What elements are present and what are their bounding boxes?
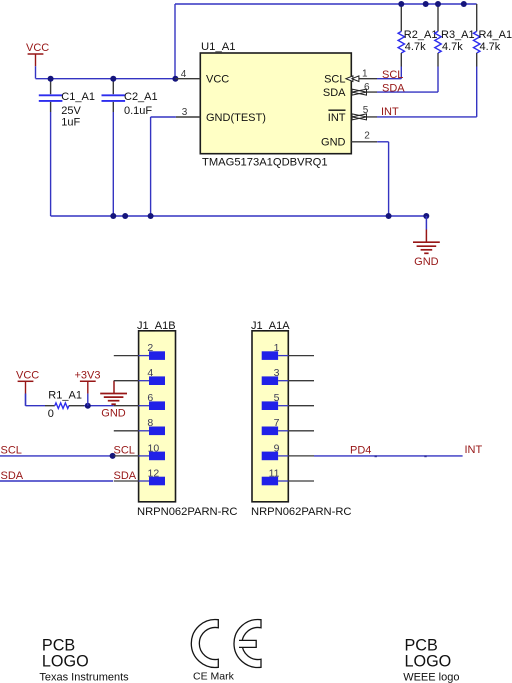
svg-text:C2_A1: C2_A1 <box>124 91 158 103</box>
svg-text:12: 12 <box>148 467 160 479</box>
svg-text:NRPN062PARN-RC: NRPN062PARN-RC <box>137 506 238 518</box>
svg-text:3: 3 <box>182 107 188 118</box>
svg-text:4.7k: 4.7k <box>442 41 463 53</box>
svg-text:R4_A1: R4_A1 <box>479 29 512 41</box>
svg-text:Texas Instruments: Texas Instruments <box>39 671 129 683</box>
svg-text:4: 4 <box>147 367 153 379</box>
svg-text:11: 11 <box>269 467 280 479</box>
svg-text:6: 6 <box>147 392 153 404</box>
svg-text:SCL: SCL <box>1 445 22 457</box>
svg-text:SDA: SDA <box>1 470 24 482</box>
svg-text:J1_A1B: J1_A1B <box>137 320 176 332</box>
svg-text:WEEE logo: WEEE logo <box>403 671 459 683</box>
svg-text:8: 8 <box>147 417 153 429</box>
svg-text:SCL: SCL <box>114 445 135 457</box>
svg-text:5: 5 <box>274 392 280 404</box>
svg-text:10: 10 <box>148 442 160 454</box>
svg-text:R1_A1: R1_A1 <box>48 389 82 401</box>
svg-text:2: 2 <box>147 342 153 354</box>
svg-text:LOGO: LOGO <box>405 652 452 670</box>
svg-text:INT: INT <box>465 444 483 456</box>
svg-text:4: 4 <box>181 69 187 80</box>
svg-text:R2_A1: R2_A1 <box>404 29 438 41</box>
svg-text:U1_A1: U1_A1 <box>201 41 236 53</box>
svg-text:VCC: VCC <box>26 42 49 54</box>
svg-text:1: 1 <box>274 342 280 354</box>
svg-text:SCL: SCL <box>382 69 403 81</box>
svg-text:GND: GND <box>321 137 346 149</box>
svg-text:1: 1 <box>362 69 368 80</box>
svg-text:R3_A1: R3_A1 <box>441 29 475 41</box>
svg-text:SDA: SDA <box>382 83 405 95</box>
svg-text:CE Mark: CE Mark <box>193 671 235 683</box>
svg-text:INT: INT <box>328 112 346 124</box>
svg-text:0.1uF: 0.1uF <box>124 105 152 117</box>
svg-text:0: 0 <box>48 408 54 420</box>
svg-text:GND(TEST): GND(TEST) <box>206 112 266 124</box>
svg-text:3: 3 <box>274 367 280 379</box>
svg-text:J1_A1A: J1_A1A <box>251 320 290 332</box>
svg-text:7: 7 <box>274 417 280 429</box>
svg-text:VCC: VCC <box>16 370 39 382</box>
svg-text:LOGO: LOGO <box>42 652 89 670</box>
svg-text:GND: GND <box>414 256 439 268</box>
svg-text:+3V3: +3V3 <box>75 370 101 382</box>
svg-text:TMAG5173A1QDBVRQ1: TMAG5173A1QDBVRQ1 <box>202 157 328 169</box>
svg-text:2: 2 <box>364 131 370 142</box>
svg-text:NRPN062PARN-RC: NRPN062PARN-RC <box>251 506 352 518</box>
svg-text:SCL: SCL <box>324 74 345 86</box>
svg-text:25V: 25V <box>61 105 81 117</box>
svg-text:9: 9 <box>274 442 280 454</box>
svg-text:4.7k: 4.7k <box>405 41 426 53</box>
svg-text:SDA: SDA <box>323 87 346 99</box>
svg-text:VCC: VCC <box>206 74 229 86</box>
svg-text:1uF: 1uF <box>61 116 80 128</box>
svg-text:4.7k: 4.7k <box>480 41 501 53</box>
svg-text:C1_A1: C1_A1 <box>61 91 95 103</box>
svg-text:INT: INT <box>381 106 399 118</box>
svg-text:PD4: PD4 <box>350 445 371 457</box>
svg-text:SDA: SDA <box>114 470 137 482</box>
svg-text:GND: GND <box>101 407 126 419</box>
